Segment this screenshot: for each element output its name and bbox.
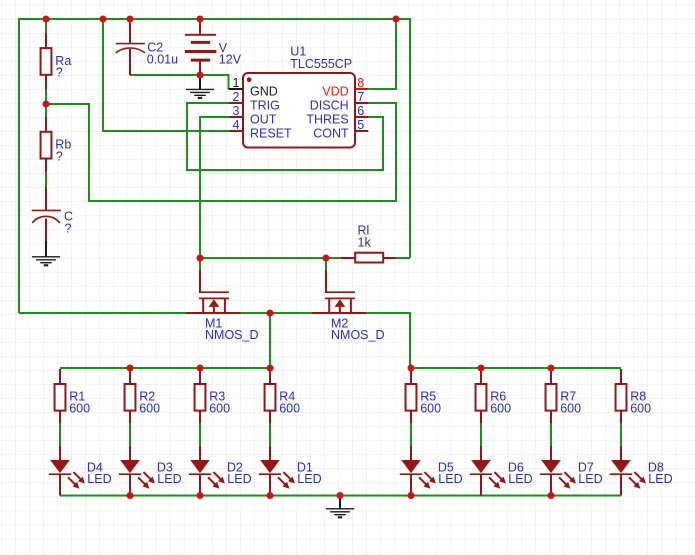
svg-text:THRES: THRES bbox=[306, 112, 348, 126]
LED D5 bbox=[410, 446, 412, 460]
svg-text:LED: LED bbox=[438, 472, 462, 486]
ground below battery bbox=[199, 75, 201, 89]
svg-text:7: 7 bbox=[357, 90, 364, 104]
wire resistor-LED links bbox=[59, 423, 61, 447]
resistor Rb bbox=[45, 104, 47, 117]
svg-text:LED: LED bbox=[578, 472, 602, 486]
svg-text:GND: GND bbox=[250, 84, 278, 98]
resistor R2 600 bbox=[129, 369, 131, 384]
resistor R1 600 bbox=[59, 369, 61, 384]
svg-text:600: 600 bbox=[279, 402, 300, 416]
wire TRIG pin2 to THRES pin6 bbox=[187, 103, 383, 170]
junction dots LED bottom rail bbox=[126, 492, 133, 499]
wire LED bottom rail bbox=[60, 495, 621, 497]
svg-text:TLC555CP: TLC555CP bbox=[290, 57, 352, 71]
wire left LED bank top rail bbox=[60, 367, 270, 369]
svg-text:12V: 12V bbox=[219, 53, 242, 67]
U1 pin 3 OUT bbox=[229, 116, 243, 118]
svg-text:600: 600 bbox=[560, 402, 581, 416]
svg-text:?: ? bbox=[65, 222, 72, 236]
junction dot source rail bbox=[266, 309, 273, 316]
wire left rail to M1 source bbox=[19, 312, 187, 314]
svg-text:8: 8 bbox=[357, 76, 364, 90]
svg-text:TRIG: TRIG bbox=[250, 98, 280, 112]
U1 pin 4 RESET bbox=[229, 130, 243, 132]
svg-text:6: 6 bbox=[357, 104, 364, 118]
transistor M1 NMOS_D bbox=[199, 258, 201, 272]
U1 pin 8 VDD bbox=[355, 88, 368, 90]
resistor R3 600 bbox=[199, 369, 201, 384]
svg-text:VDD: VDD bbox=[322, 84, 348, 98]
svg-text:600: 600 bbox=[630, 402, 651, 416]
U1 pin 2 TRIG bbox=[229, 102, 243, 104]
svg-text:LED: LED bbox=[227, 472, 251, 486]
wire VDD rail: right drop, top rail, left rail bbox=[19, 19, 410, 313]
capacitor C bbox=[45, 187, 47, 210]
resistor R8 600 bbox=[620, 369, 622, 384]
wire M1-M2 source rail bbox=[241, 312, 314, 314]
svg-text:600: 600 bbox=[490, 402, 511, 416]
wire OUT pin3 down to gate rail bbox=[200, 117, 229, 258]
U1 pin 6 THRES bbox=[355, 116, 368, 118]
svg-text:600: 600 bbox=[139, 402, 160, 416]
svg-text:NMOS_D: NMOS_D bbox=[331, 328, 384, 342]
svg-text:LED: LED bbox=[157, 472, 181, 486]
svg-text:0.01u: 0.01u bbox=[147, 52, 178, 66]
LED D3 bbox=[129, 446, 131, 460]
resistor Rl 1k bbox=[340, 257, 355, 259]
resistor R6 600 bbox=[480, 369, 482, 384]
svg-text:LED: LED bbox=[508, 472, 532, 486]
U1 pin 1 GND bbox=[229, 88, 244, 90]
svg-text:600: 600 bbox=[69, 402, 90, 416]
LED D2 bbox=[199, 446, 201, 460]
battery V 12V bbox=[199, 19, 201, 34]
svg-text:3: 3 bbox=[233, 104, 240, 118]
wire RESET pin4 to VDD rail bbox=[103, 19, 229, 131]
svg-text:LED: LED bbox=[87, 472, 111, 486]
ground below C bbox=[32, 256, 60, 258]
svg-text:LED: LED bbox=[297, 472, 321, 486]
op-amp U1 TLC555CP box bbox=[243, 73, 355, 148]
svg-text:?: ? bbox=[56, 149, 63, 163]
resistor R4 600 bbox=[269, 369, 271, 384]
resistor Ra bbox=[45, 19, 47, 33]
junction dots top rail bbox=[42, 15, 49, 22]
svg-text:2: 2 bbox=[233, 90, 240, 104]
junction dot Ra-Rb node bbox=[42, 100, 49, 107]
wire node A: Ra-Rb junction to DISCH pin7 bbox=[46, 103, 396, 201]
U1 pin 5 CONT bbox=[355, 130, 368, 132]
wire right LED bank top rail bbox=[410, 367, 621, 369]
wire source rail to left LED bank bbox=[269, 313, 271, 368]
svg-text:4: 4 bbox=[233, 118, 240, 132]
transistor M2 NMOS_D bbox=[325, 258, 327, 272]
LED D6 bbox=[480, 446, 482, 460]
svg-text:LED: LED bbox=[648, 472, 672, 486]
resistor R7 600 bbox=[550, 369, 552, 384]
svg-text:5: 5 bbox=[357, 118, 364, 132]
svg-text:600: 600 bbox=[420, 402, 441, 416]
LED D7 bbox=[550, 446, 552, 460]
junction dots LED top rails bbox=[126, 364, 133, 371]
LED D1 bbox=[269, 446, 271, 460]
svg-text:?: ? bbox=[56, 65, 63, 79]
wire gate rail bbox=[200, 257, 340, 259]
svg-text:DISCH: DISCH bbox=[310, 98, 349, 112]
resistor R5 600 bbox=[410, 369, 412, 384]
svg-text:NMOS_D: NMOS_D bbox=[205, 328, 258, 342]
svg-text:CONT: CONT bbox=[313, 126, 349, 140]
svg-text:RESET: RESET bbox=[250, 126, 292, 140]
LED D8 bbox=[620, 446, 622, 460]
wire VDD pin8 up to rail bbox=[368, 19, 396, 89]
svg-text:1k: 1k bbox=[358, 236, 372, 250]
svg-text:600: 600 bbox=[209, 402, 230, 416]
U1 pin 7 DISCH bbox=[355, 102, 368, 104]
ground at bottom rail bbox=[339, 496, 341, 509]
capacitor C2 0.01u bbox=[129, 23, 131, 43]
LED D4 bbox=[59, 446, 61, 460]
junction dot battery minus bbox=[196, 71, 203, 78]
wire battery minus to pin1 GND bbox=[130, 75, 229, 89]
svg-text:1: 1 bbox=[233, 76, 240, 90]
junction dots gate rail bbox=[196, 254, 203, 261]
svg-text:OUT: OUT bbox=[250, 112, 277, 126]
